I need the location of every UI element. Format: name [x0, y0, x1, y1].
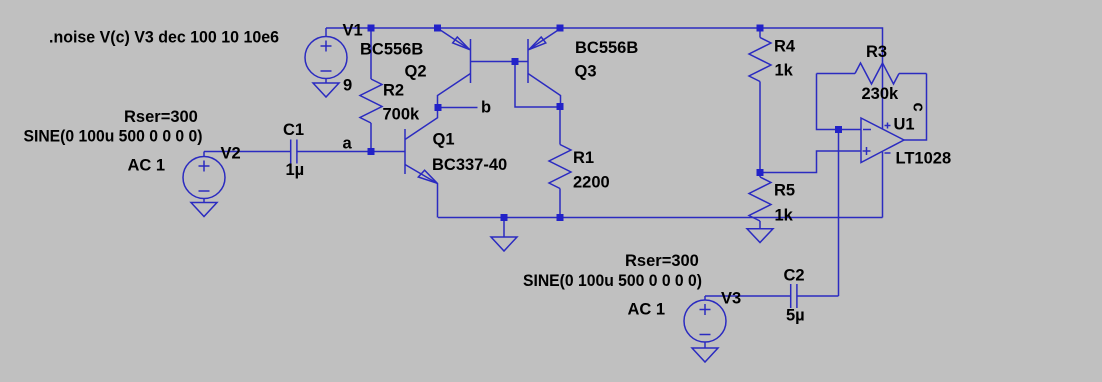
wire V2 to C1 [204, 151, 291, 153]
resistor R1 [549, 107, 571, 218]
wire V3 to C2 [705, 295, 791, 297]
wire top rail V1 to opamp V+ [326, 28, 883, 129]
svg-text:SINE(0 100u 500 0 0 0 0): SINE(0 100u 500 0 0 0 0) [24, 128, 203, 146]
svg-text:C2: C2 [784, 267, 805, 285]
junction dots [368, 25, 843, 222]
svg-text:2200: 2200 [573, 174, 610, 192]
junction bottom rail R1 [557, 214, 564, 221]
wire feedback to opamp -input [817, 74, 862, 130]
svg-text:V1: V1 [343, 22, 363, 40]
svg-text:R1: R1 [573, 149, 594, 167]
junction node a [368, 148, 375, 155]
svg-text:SINE(0 100u 500 0 0 0 0): SINE(0 100u 500 0 0 0 0) [523, 272, 702, 290]
resistor R5 [749, 173, 771, 222]
svg-text:C1: C1 [283, 121, 304, 139]
capacitor C2 [791, 284, 797, 308]
wire C2 to inverting vertical [797, 295, 839, 297]
wire inverting node to C2 [838, 130, 840, 297]
svg-text:Rser=300: Rser=300 [625, 252, 699, 270]
junction rail-R2 [368, 25, 375, 32]
svg-text:c: c [910, 103, 928, 112]
svg-text:Rser=300: Rser=300 [124, 108, 198, 126]
svg-text:230k: 230k [862, 85, 900, 103]
wire node b stub [438, 107, 478, 109]
ground below R5 [747, 221, 773, 243]
svg-text:Q2: Q2 [405, 63, 427, 81]
ground below V1 [313, 79, 339, 98]
opamp V- wire [882, 152, 884, 218]
svg-text:Q1: Q1 [433, 131, 455, 149]
transistor Q2 [438, 29, 516, 108]
svg-text:U1: U1 [894, 116, 915, 134]
transistor Q3 [515, 29, 561, 107]
svg-text:1k: 1k [775, 207, 794, 225]
svg-text:R4: R4 [774, 38, 796, 56]
ground on bottom rail [491, 218, 517, 252]
svg-text:1µ: 1µ [286, 161, 305, 179]
svg-text:BC556B: BC556B [575, 39, 638, 57]
svg-text:AC 1: AC 1 [628, 301, 666, 319]
svg-text:5µ: 5µ [786, 307, 805, 325]
voltage source V1 [305, 28, 347, 79]
svg-text:V2: V2 [221, 145, 241, 163]
transistor Q1 [405, 108, 438, 218]
svg-text:b: b [481, 99, 491, 117]
svg-text:Q3: Q3 [575, 63, 597, 81]
svg-text:a: a [343, 135, 353, 153]
junction inverting node [835, 126, 842, 133]
ground below V2 [191, 199, 217, 217]
junction rail-Q3 [557, 25, 564, 32]
svg-text:LT1028: LT1028 [896, 150, 952, 168]
wire bottom rail [438, 217, 883, 219]
svg-text:700k: 700k [383, 106, 421, 124]
svg-text:1k: 1k [775, 62, 794, 80]
svg-text:R5: R5 [774, 182, 795, 200]
voltage source V3 [684, 296, 726, 342]
opamp U1 [861, 118, 904, 163]
svg-text:9: 9 [343, 77, 352, 95]
resistor R2 [360, 28, 382, 152]
junction rail-Q2 [434, 25, 441, 32]
junction Q2/Q3 bases [512, 58, 519, 65]
resistor R3 [817, 63, 927, 84]
svg-text:R2: R2 [383, 82, 404, 100]
ground below V3 [692, 342, 718, 362]
svg-text:.noise V(c) V3 dec 100 10 10e6: .noise V(c) V3 dec 100 10 10e6 [49, 29, 279, 47]
junction Q3 collector [557, 103, 564, 110]
wire base node to Q3 collector [515, 62, 561, 108]
svg-text:R3: R3 [866, 43, 887, 61]
junction R4-R5 node [757, 169, 764, 176]
junction bottom rail ground [501, 214, 508, 221]
voltage source V2 [183, 152, 225, 199]
resistor R4 [749, 28, 771, 173]
wire R4/R5 node to opamp +input [760, 151, 861, 173]
wire node a: C1 to Q1 base [297, 151, 405, 153]
svg-text:BC556B: BC556B [360, 41, 423, 59]
capacitor C1 [291, 140, 297, 164]
svg-text:V3: V3 [721, 290, 741, 308]
junction rail-R4 [757, 25, 764, 32]
svg-text:BC337-40: BC337-40 [432, 156, 507, 174]
wire opamp output to node c and R3 [904, 74, 927, 141]
junction node b [435, 104, 442, 111]
svg-text:AC 1: AC 1 [128, 157, 166, 175]
